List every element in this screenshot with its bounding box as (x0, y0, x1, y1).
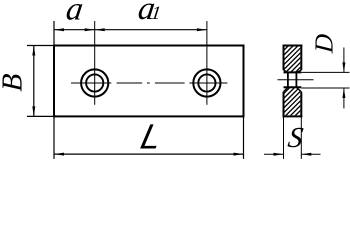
dim S extensions (283, 117, 285, 158)
vertical centerline right hole (206, 21, 208, 105)
dim D line (343, 48, 345, 73)
dim a line (54, 29, 95, 31)
hole left outer (81, 69, 108, 96)
hole right inner (198, 74, 215, 91)
dim a: extension of plate left edge above (53, 21, 55, 46)
hole right outer (193, 69, 220, 96)
side view centerline (278, 79, 314, 81)
svg-text:D: D (310, 33, 339, 55)
dim L extensions (plate edges continued down) (53, 116, 55, 158)
side view hole void (284, 70, 302, 92)
dim B line (33, 46, 35, 117)
dim B extension top (27, 45, 54, 47)
side view bore verticals (287, 72, 289, 87)
dim S arrows (274, 153, 284, 156)
dim L arrows (54, 153, 64, 156)
dim D extensions (301, 71, 349, 73)
dim a1 line (95, 29, 207, 31)
dim D arrows (342, 62, 345, 72)
dim a arrows (54, 28, 64, 31)
dim a1 arrows (95, 28, 105, 31)
front view plate outline (54, 46, 244, 117)
svg-text:B: B (0, 73, 28, 93)
label a1 (136, 0, 164, 27)
dim B extension bottom (27, 115, 54, 117)
side view outline (283, 45, 303, 118)
dim L line (54, 153, 244, 155)
side view bore lines (284, 71, 302, 73)
vertical centerline left hole (94, 21, 96, 105)
chamfer diagonals (284, 70, 302, 92)
dim S line (264, 153, 284, 155)
horizontal centerline (dash-dot) through holes (71, 82, 227, 84)
hole left inner (86, 74, 103, 91)
dim B arrows (32, 46, 35, 56)
